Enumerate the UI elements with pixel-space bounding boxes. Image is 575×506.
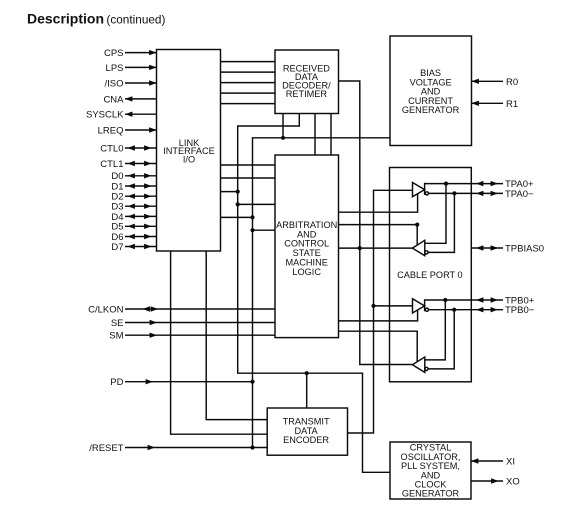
block LINK INTERFACE I/O xyxy=(157,50,221,252)
svg-text:TPA0−: TPA0− xyxy=(505,189,534,200)
wire CTL0 bidirectional xyxy=(125,147,157,149)
wire CTL1 bidirectional xyxy=(125,163,157,165)
arrowhead TPA0- left xyxy=(476,191,483,196)
svg-text:XO: XO xyxy=(506,477,520,488)
arrowhead D1 left xyxy=(128,183,135,188)
svg-text:TPBIAS0: TPBIAS0 xyxy=(505,244,544,255)
arrowhead PD xyxy=(146,379,153,384)
block ARBITRATION AND CONTROL STATE MACHINE LOGIC xyxy=(275,155,339,338)
wire PD xyxy=(125,381,253,383)
wire decoder bottom to reset net stub xyxy=(282,114,284,138)
block BIAS VOLTAGE AND CURRENT GENERATOR xyxy=(390,36,472,146)
wire TPB0+ line xyxy=(425,299,503,301)
arrowhead CTL0 right xyxy=(144,145,151,150)
bubble TPA driver inverted output xyxy=(425,192,428,195)
junction receive data net xyxy=(358,246,362,250)
arrowhead D6 right xyxy=(144,234,151,239)
svg-text:R0: R0 xyxy=(506,77,518,88)
svg-text:D7: D7 xyxy=(111,242,123,253)
wire D5 bidirectional xyxy=(125,225,157,227)
svg-text:/ISO: /ISO xyxy=(104,78,123,89)
arrowhead TPB0- right xyxy=(491,307,498,312)
arrowhead D0 left xyxy=(128,173,135,178)
wire LINK to decoder bus line 2 xyxy=(221,71,276,73)
wire R1 xyxy=(472,102,504,104)
op-amp TPA receiver triangle xyxy=(412,240,424,255)
wire LPS input xyxy=(125,66,157,68)
svg-text:R1: R1 xyxy=(506,99,518,110)
wire C/LKON to arbitration block xyxy=(125,308,275,310)
wire R0 xyxy=(472,80,504,82)
wire decoder to arbitration vertical 2 xyxy=(330,114,332,156)
arrowhead D1 right xyxy=(144,183,151,188)
wire decoder to arbitration vertical 1 xyxy=(314,114,316,156)
wire reset net to BIAS block xyxy=(253,138,391,448)
arrowhead TPA0+ left xyxy=(476,181,483,186)
wire SYSCLK output xyxy=(125,113,157,115)
op-amp TPB receiver triangle xyxy=(412,357,424,372)
arrowhead D5 right xyxy=(144,224,151,229)
wire CNA output xyxy=(125,98,157,100)
junction decoder stub on bias wire xyxy=(281,136,285,140)
wire D3 bidirectional xyxy=(125,205,157,207)
svg-text:CPS: CPS xyxy=(104,48,124,59)
arrowhead CTL0 left xyxy=(128,145,135,150)
wire LINK to decoder bus line 4 xyxy=(221,92,276,94)
arrowhead D6 left xyxy=(128,234,135,239)
wire receive data net decoder/arb/receivers xyxy=(339,81,413,365)
arrowhead C/LKON left xyxy=(143,306,150,311)
arrowhead /ISO into LINK xyxy=(149,80,156,85)
svg-text:CTL1: CTL1 xyxy=(100,159,123,170)
svg-text:RECEIVEDDATADECODER/RETIMER: RECEIVEDDATADECODER/RETIMER xyxy=(282,64,331,99)
wire TPA0- to receiver inverted input xyxy=(428,193,454,252)
arrowhead TPBIAS0 left xyxy=(476,245,483,250)
wire TPA receiver output to arbitration xyxy=(339,247,413,249)
svg-text:/RESET: /RESET xyxy=(89,443,124,454)
arrowhead XI into crystal block xyxy=(471,458,478,463)
block TRANSMIT DATA ENCODER xyxy=(267,408,347,455)
wire /RESET into TRANSMIT DATA ENCODER xyxy=(125,447,267,449)
arrowhead D5 left xyxy=(128,224,135,229)
svg-text:CNA: CNA xyxy=(103,94,124,105)
wire XI xyxy=(471,460,503,462)
svg-text:CRYSTALOSCILLATOR,PLL SYSTEM,A: CRYSTALOSCILLATOR,PLL SYSTEM,ANDCLOCKGEN… xyxy=(401,443,461,499)
junction TPA receiver enable corner xyxy=(415,223,419,227)
block CRYSTAL OSCILLATOR PLL SYSTEM AND CLOCK GENERATOR xyxy=(390,442,471,499)
wire LINK to transmit encoder 1 xyxy=(171,251,268,434)
arrowhead R0 into BIAS xyxy=(472,79,479,84)
wire LREQ input xyxy=(125,129,157,131)
wire LINK to transmit encoder 2 xyxy=(206,251,267,420)
wire D7 bidirectional xyxy=(125,246,157,248)
svg-text:CABLE PORT 0: CABLE PORT 0 xyxy=(397,270,463,280)
wire D2 bidirectional xyxy=(125,195,157,197)
svg-text:Description (continued): Description (continued) xyxy=(27,10,165,26)
svg-text:SM: SM xyxy=(109,331,123,342)
wire transmit data encoder to TPA driver xyxy=(348,190,414,433)
arrowhead LREQ into LINK xyxy=(149,127,156,132)
arrowhead TPB0+ right xyxy=(491,297,498,302)
arrowhead D7 left xyxy=(128,244,135,249)
wire TPB0- to receiver inverted input xyxy=(428,310,454,369)
arrowhead TPA0- right xyxy=(491,191,498,196)
bubble TPB driver inverted output xyxy=(425,308,428,311)
arrowhead D4 right xyxy=(144,214,151,219)
junction TPB0+ to receiver xyxy=(443,298,447,302)
wire LINK to reset net tap xyxy=(221,216,253,218)
arrowhead D2 left xyxy=(128,194,135,199)
junction arbitration tap on clock net xyxy=(236,202,240,206)
wire /ISO input xyxy=(125,82,157,84)
wire TPA driver output bar xyxy=(424,183,426,195)
arrowhead /RESET xyxy=(148,445,155,450)
arrowhead C/LKON right xyxy=(151,306,158,311)
arrowhead CTL1 left xyxy=(128,161,135,166)
wire clock net decoder to crystal oscillator xyxy=(238,114,390,473)
arrowhead R1 into BIAS xyxy=(472,101,479,106)
arrowhead TPB0- left xyxy=(476,307,483,312)
svg-text:SYSCLK: SYSCLK xyxy=(86,110,124,121)
junction TPA0+ to receiver xyxy=(444,182,448,186)
wire TPA0+ to receiver input xyxy=(425,184,446,244)
svg-text:SE: SE xyxy=(111,318,124,329)
wire arbitration to TPA receiver enable xyxy=(339,225,418,246)
wire TPB0- line xyxy=(429,309,503,311)
wire XO xyxy=(471,480,503,482)
wire D1 bidirectional xyxy=(125,185,157,187)
junction clock to transmit encoder xyxy=(305,371,309,375)
bubble TPA receiver inverted input xyxy=(425,251,428,254)
arrowhead D3 left xyxy=(128,204,135,209)
arrowhead D0 right xyxy=(144,173,151,178)
wire arbitration to TPB driver enable xyxy=(339,310,418,321)
block CABLE PORT 0 xyxy=(390,168,472,382)
wire clock branch into TRANSMIT top xyxy=(306,373,308,408)
arrowhead D2 right xyxy=(144,194,151,199)
svg-text:LPS: LPS xyxy=(106,63,124,74)
junction /RESET with vertical net xyxy=(250,445,254,449)
wire clock net tap to arbitration xyxy=(238,203,275,205)
wire D0 bidirectional xyxy=(125,175,157,177)
arrowhead D7 right xyxy=(144,244,151,249)
svg-text:C/LKON: C/LKON xyxy=(88,304,124,315)
wire TPBIAS0 xyxy=(471,247,503,249)
junction arbitration tap on reset net xyxy=(250,228,254,232)
svg-text:CTL0: CTL0 xyxy=(100,143,123,154)
wire LINK to decoder bus line 5 xyxy=(221,103,276,105)
junction TPB0- to receiver xyxy=(452,308,456,312)
wire TPA0+ line xyxy=(425,183,503,185)
wire SM to arbitration block xyxy=(125,334,275,336)
wire reset net tap to arbitration xyxy=(253,229,276,231)
wire TPA0- line xyxy=(429,192,503,194)
arrowhead CPS into LINK xyxy=(149,50,156,55)
arrowhead TPBIAS0 right xyxy=(491,245,498,250)
block RECEIVED DATA DECODER/RETIMER xyxy=(275,50,339,114)
junction LINK tap on reset net xyxy=(250,215,254,219)
arrowhead D4 left xyxy=(128,214,135,219)
junction PD to reset net xyxy=(250,380,254,384)
wire CPS input xyxy=(125,52,157,54)
arrowhead D3 right xyxy=(144,204,151,209)
svg-text:XI: XI xyxy=(506,457,515,468)
wire SE to arbitration block xyxy=(125,322,275,324)
arrowhead TPB0+ left xyxy=(476,297,483,302)
arrowhead SM right xyxy=(150,333,157,338)
arrowhead CNA toward label xyxy=(125,96,132,101)
svg-text:PD: PD xyxy=(110,377,123,388)
op-amp TPA0 driver triangle xyxy=(413,183,425,197)
arrowhead CTL1 right xyxy=(144,161,151,166)
arrowhead XO out xyxy=(491,478,498,483)
arrowhead LPS into LINK xyxy=(149,65,156,70)
junction TPA0- to receiver xyxy=(452,191,456,195)
wire transmit data branch to TPB driver xyxy=(374,305,414,307)
wire LINK to arbitration bus 2 xyxy=(221,177,276,179)
wire D4 bidirectional xyxy=(125,215,157,217)
junction transmit data to TPB driver xyxy=(371,304,375,308)
op-amp TPB0 driver triangle xyxy=(413,299,425,313)
wire TPB driver output bar xyxy=(424,299,426,311)
junction LINK tap on clock net xyxy=(236,190,240,194)
arrowhead SE right xyxy=(150,320,157,325)
svg-text:TPB0−: TPB0− xyxy=(505,305,535,316)
wire arbitration to TPA driver enable xyxy=(339,194,418,213)
wire D6 bidirectional xyxy=(125,236,157,238)
wire LINK to clock net tap xyxy=(221,191,238,193)
arrowhead SYSCLK toward label xyxy=(125,112,132,117)
svg-text:LREQ: LREQ xyxy=(98,125,124,136)
bubble TPB receiver inverted input xyxy=(425,367,428,370)
wire TPB0+ to receiver input xyxy=(425,300,446,360)
wire LINK to decoder bus line 1 xyxy=(221,61,276,63)
arrowhead TPA0+ right xyxy=(491,181,498,186)
wire LINK to decoder bus line 3 xyxy=(221,82,276,84)
wire arbitration to TPB receiver enable xyxy=(339,331,418,362)
wire LINK to arbitration bus 1 xyxy=(221,164,276,166)
